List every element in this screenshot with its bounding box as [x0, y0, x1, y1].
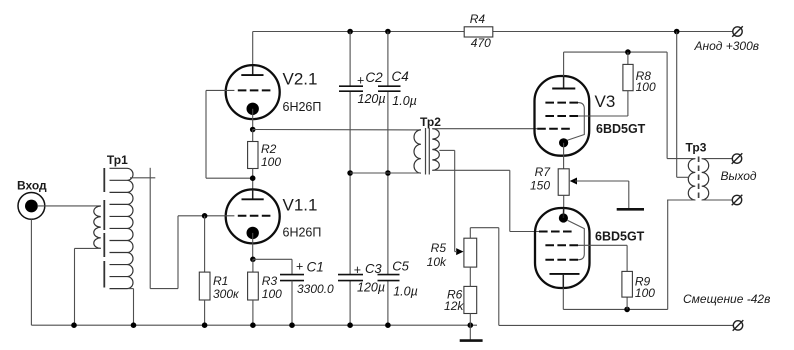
svg-text:1.0µ: 1.0µ [393, 285, 418, 299]
svg-text:6BD5GT: 6BD5GT [595, 230, 645, 244]
svg-text:6BD5GT: 6BD5GT [596, 122, 646, 136]
svg-text:Выход: Выход [721, 169, 757, 183]
svg-text:R3: R3 [262, 274, 278, 288]
svg-text:V3: V3 [595, 92, 616, 111]
svg-text:C2: C2 [365, 70, 383, 85]
svg-text:120µ: 120µ [358, 92, 386, 106]
svg-text:470: 470 [471, 36, 491, 50]
svg-text:120µ: 120µ [357, 280, 385, 294]
svg-text:C1: C1 [307, 260, 324, 275]
svg-text:100: 100 [636, 80, 656, 94]
svg-text:300к: 300к [213, 287, 240, 301]
svg-text:Тр1: Тр1 [107, 153, 128, 167]
svg-text:6Н26П: 6Н26П [283, 100, 322, 114]
svg-text:+: + [296, 260, 303, 274]
svg-text:R5: R5 [431, 241, 447, 255]
svg-text:Тр2: Тр2 [420, 115, 441, 129]
svg-text:Смещение -42в: Смещение -42в [683, 292, 770, 306]
svg-text:3300.0: 3300.0 [297, 282, 334, 296]
svg-text:C5: C5 [392, 258, 409, 273]
svg-text:150: 150 [530, 179, 550, 193]
svg-text:V1.1: V1.1 [283, 195, 318, 214]
svg-text:100: 100 [262, 287, 282, 301]
svg-text:1.0µ: 1.0µ [392, 94, 417, 108]
svg-text:Анод +300в: Анод +300в [694, 39, 760, 53]
svg-text:R4: R4 [470, 12, 486, 26]
svg-text:100: 100 [635, 286, 655, 300]
svg-text:C3: C3 [365, 261, 382, 276]
svg-text:12k: 12k [444, 299, 464, 313]
svg-text:6Н26П: 6Н26П [283, 226, 322, 240]
svg-text:Тр3: Тр3 [686, 141, 707, 155]
svg-text:C4: C4 [392, 69, 409, 84]
svg-text:R7: R7 [535, 165, 552, 179]
svg-text:V2.1: V2.1 [283, 69, 318, 88]
svg-text:+: + [357, 73, 364, 87]
svg-text:+: + [354, 263, 361, 277]
svg-text:Вход: Вход [17, 179, 47, 193]
svg-text:10k: 10k [427, 255, 447, 269]
svg-text:R1: R1 [213, 274, 228, 288]
svg-text:R2: R2 [261, 142, 277, 156]
svg-text:100: 100 [261, 155, 281, 169]
